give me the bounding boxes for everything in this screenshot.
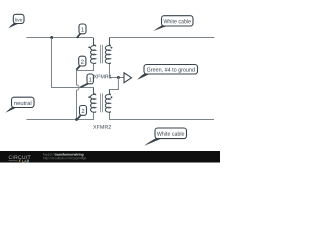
XFMR2 primary winding (91, 88, 96, 112)
wire XFMR2 secondary bottom white cable (110, 112, 215, 120)
XFMR2 phase dot secondary (111, 96, 113, 98)
XFMR1 phase dot secondary (111, 47, 113, 49)
footer title line (43, 153, 53, 155)
XFMR2 phase dot primary (88, 96, 90, 98)
transformer XFMR2 (91, 88, 111, 112)
wire neutral rail (26, 112, 93, 120)
footer url line (43, 157, 86, 160)
XFMR1 core (101, 45, 103, 64)
wire live branch down to XFMR2 primary top (52, 38, 94, 94)
XFMR1 phase dot primary (88, 47, 90, 49)
XFMR1 primary winding (91, 38, 96, 63)
wire XFMR1 primary bottom to neutral with hop (77, 63, 94, 120)
XFMR2 label (93, 125, 111, 129)
wire XFMR1 secondary bottom to flag (110, 63, 125, 78)
annotation wire 1 top (77, 24, 86, 38)
annotation White cable bottom (144, 128, 186, 146)
footer logo CIRCUIT (9, 156, 31, 160)
node junction at 52,37.7 (50, 36, 53, 39)
node junction green (117, 76, 120, 79)
XFMR1 label (94, 75, 112, 79)
flag output arrow (124, 73, 132, 83)
annotation Green #4 to ground (137, 65, 197, 80)
XFMR2 core (101, 94, 103, 113)
XFMR1 secondary winding (105, 38, 110, 63)
annotation live (8, 14, 24, 28)
wire XFMR1 secondary top white cable (110, 38, 215, 46)
transformer XFMR1 (91, 38, 111, 63)
annotation White cable top (153, 16, 193, 31)
annotation neutral (5, 97, 34, 113)
footer bar (0, 151, 220, 163)
XFMR2 secondary winding (105, 90, 110, 113)
annotation wire 1 lower (81, 74, 94, 87)
wire live top rail (26, 37, 93, 39)
annotation wire 2 mid (76, 56, 86, 70)
node junction neutral-hop (75, 118, 78, 121)
annotation wire 2 bottom (76, 106, 86, 121)
wire XFMR2 secondary top (110, 78, 119, 95)
footer logo LAB (9, 160, 18, 162)
